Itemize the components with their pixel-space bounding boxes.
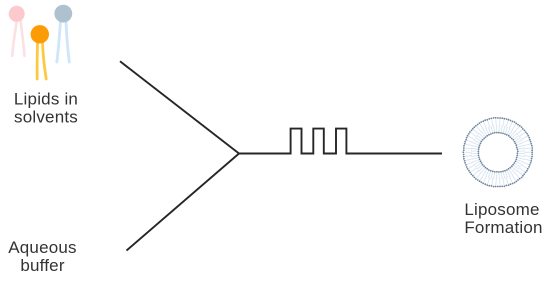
liposome bbox=[462, 117, 533, 188]
lipid (blue) bbox=[54, 5, 72, 62]
label: Aqueous buffer bbox=[8, 238, 77, 275]
lipid (pink) bbox=[9, 6, 25, 56]
svg-text:solvents: solvents bbox=[14, 108, 78, 127]
label: Lipids in solvents bbox=[14, 90, 78, 127]
lipid (orange) bbox=[31, 25, 49, 79]
label: Liposome Formation bbox=[464, 200, 542, 237]
svg-text:Formation: Formation bbox=[464, 218, 542, 237]
svg-text:buffer: buffer bbox=[20, 256, 65, 275]
svg-text:Lipids in: Lipids in bbox=[14, 90, 78, 109]
inlet channel (bottom, buffer) bbox=[127, 154, 240, 251]
svg-text:Liposome: Liposome bbox=[464, 200, 539, 219]
mixing channel with square-wave mixer bbox=[239, 129, 442, 154]
svg-text:Aqueous: Aqueous bbox=[8, 238, 77, 257]
inlet channel (top, lipids) bbox=[120, 61, 239, 153]
